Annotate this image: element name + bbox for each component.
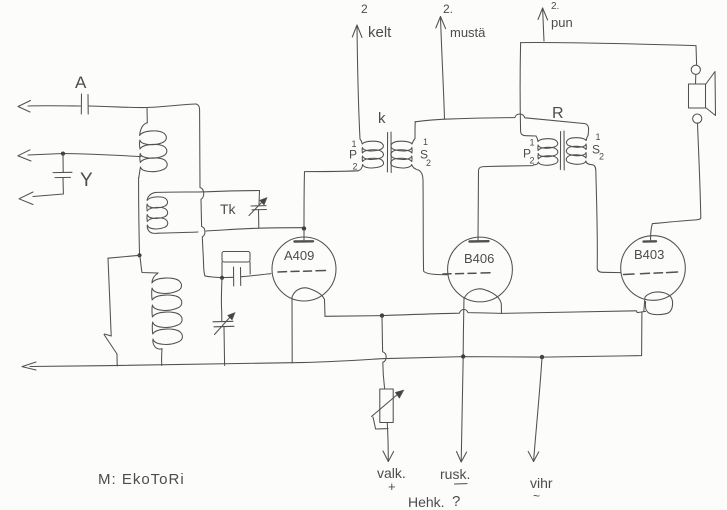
triode B403 envelope <box>621 236 686 301</box>
wire C2 bottom leg <box>258 210 260 228</box>
label valk + <box>377 465 406 494</box>
svg-text:2: 2 <box>361 2 368 16</box>
wire vihr lead down <box>534 358 542 462</box>
junction dot grid branch <box>220 276 224 280</box>
wire switch upper lead <box>108 258 111 336</box>
transformer R core <box>560 131 564 170</box>
svg-text:Hehk.: Hehk. <box>408 494 445 510</box>
wire C4 to bottom rail <box>223 327 226 366</box>
wire Tk bottom to C2 bottom and anode node <box>158 228 304 234</box>
anode cap bar A409 <box>295 240 314 243</box>
label pun <box>551 1 573 30</box>
wire valk lead down with hop over bottom rail <box>382 316 386 389</box>
wire corner down to C2 top plate <box>258 191 261 206</box>
rusk minus underline <box>455 483 468 485</box>
bottom rail left arrow <box>22 362 36 370</box>
antenna input arrow 1 <box>18 101 31 113</box>
wire antenna2 to junction and coil tap <box>28 154 141 157</box>
bottom rail from left antenna arrow to B403 filament <box>30 313 642 367</box>
svg-text:1: 1 <box>596 132 601 142</box>
grid resistor R1 right leg <box>249 262 251 274</box>
svg-text:pun: pun <box>551 15 573 30</box>
svg-text:2.: 2. <box>551 1 559 12</box>
svg-text:M: EkoToRi: M: EkoToRi <box>98 471 185 488</box>
top rail pun to speaker <box>521 42 697 64</box>
svg-text:1: 1 <box>423 137 428 147</box>
svg-text:k: k <box>378 110 386 127</box>
wire musta lead up <box>441 17 445 119</box>
grid dashed line B403 <box>624 272 678 275</box>
svg-text:2.: 2. <box>443 2 453 16</box>
capacitor A <box>75 73 88 114</box>
mid filament rail with hop over rusk wire <box>382 310 646 316</box>
junction dot A409 filament rail <box>380 313 384 317</box>
svg-text:R: R <box>552 105 564 122</box>
wire grid circuit to tube A409 grid <box>205 274 271 278</box>
reaction coil L3 <box>152 273 183 349</box>
wire coil L1 bottom down to junction <box>138 178 141 255</box>
switch blade <box>104 334 117 354</box>
wire k S1 node to musta and transformer R (hops over pun wire) <box>415 114 589 135</box>
grid resistor R1 loop left leg <box>221 262 223 278</box>
speaker bottom terminal <box>693 114 702 123</box>
svg-text:2: 2 <box>353 162 358 172</box>
wire kelt lead up <box>357 26 360 139</box>
triode B406 envelope <box>448 237 513 302</box>
output transformer R secondary winding <box>566 135 591 165</box>
wire k primary bottom to anode node A409 <box>304 171 358 227</box>
variable capacitor C2 plates <box>251 206 267 210</box>
svg-text:B406: B406 <box>464 251 494 266</box>
capacitor Y <box>53 170 93 191</box>
svg-text:~: ~ <box>533 489 540 503</box>
wire speaker to B403 anode <box>651 123 701 241</box>
rheostat foot <box>373 417 388 429</box>
label Hehk ? <box>408 493 460 510</box>
variable capacitor C4 plates <box>213 321 234 327</box>
triode A409 envelope <box>272 237 336 301</box>
wire junction to switch <box>108 255 140 258</box>
wire pun arrow up <box>543 8 544 41</box>
wire reaction coil to rail <box>161 349 163 366</box>
variable capacitor C4 arrow <box>215 313 236 335</box>
tickler coil Tk winding <box>147 192 168 233</box>
filament left leg B406 down through rail to rusk <box>461 298 464 462</box>
junction dot left coil node <box>137 253 141 257</box>
label vihr <box>530 475 553 503</box>
variable capacitor C2 arrow <box>249 198 267 216</box>
svg-text:kelt: kelt <box>368 24 392 41</box>
svg-text:A: A <box>75 73 87 92</box>
filament left leg A409 to rail <box>291 297 293 363</box>
wire pun vertical down to R primary <box>520 43 536 136</box>
wire capacitor Y to antenna3 <box>33 178 63 197</box>
filament loop B406 <box>464 289 502 314</box>
speaker box <box>689 84 706 108</box>
antenna coil L1 stem <box>146 108 148 123</box>
wire k S1 up to node <box>414 122 416 139</box>
antenna input arrow 2 <box>18 150 31 161</box>
capacitor Y stem <box>62 154 64 172</box>
anode lead B406 up and to transformer R primary <box>478 166 533 241</box>
label rusk - <box>440 466 470 482</box>
filament loop A409 <box>292 288 325 316</box>
grid dashed line A409 <box>278 271 326 273</box>
wire corner down long vertical to grid circuit (hops over Tk wires) <box>196 104 205 276</box>
arrowhead kelt <box>352 25 362 38</box>
grid resistor R1 <box>222 252 250 263</box>
wire Tk top to variable capacitor C2 <box>155 191 260 193</box>
antenna coil L1 <box>139 123 167 178</box>
wire antenna1 to capacitor A <box>28 105 81 107</box>
transformer k core <box>387 132 391 173</box>
wire filament A409 to mid rail junction <box>325 315 382 318</box>
junction dot rusk on bottom rail <box>461 354 465 358</box>
transformer k secondary winding <box>391 139 419 171</box>
svg-text:Y: Y <box>80 170 93 191</box>
wire k secondary bottom down to B406 grid <box>419 170 447 274</box>
grid capacitor C3 plates <box>234 267 241 286</box>
wire grid branch down to variable capacitor C4 <box>220 278 223 321</box>
pin labels R primary <box>523 138 535 166</box>
pin labels R secondary <box>592 132 604 162</box>
rheostat arrow <box>372 390 404 417</box>
pin labels k primary <box>349 139 358 172</box>
svg-text:?: ? <box>452 493 460 510</box>
antenna input arrow 3 <box>19 192 33 205</box>
arrowhead valk <box>383 451 394 462</box>
speaker terminal link <box>695 75 697 85</box>
label musta <box>443 2 486 40</box>
wire switch lower lead to rail <box>116 354 118 366</box>
arrowhead vihr <box>528 452 539 462</box>
anode cap bar B406 <box>470 240 489 243</box>
speaker cone <box>706 72 716 116</box>
svg-text:B403: B403 <box>634 247 664 262</box>
audio transformer k primary winding <box>358 139 384 171</box>
arrowhead rusk <box>457 452 467 463</box>
svg-text:2: 2 <box>426 158 431 168</box>
svg-text:2: 2 <box>530 156 535 166</box>
svg-text:mustä: mustä <box>450 25 486 40</box>
anode lead A409 <box>303 229 305 240</box>
svg-text:A409: A409 <box>284 248 314 263</box>
arrowhead musta <box>436 17 446 29</box>
svg-text:+: + <box>388 479 396 494</box>
output transformer R primary winding <box>534 136 558 165</box>
arrowhead pun <box>538 8 548 20</box>
anode cap bar B403 <box>644 240 657 243</box>
filament loop B403 <box>645 292 672 315</box>
filament leg B403 to rail <box>644 297 645 311</box>
rheostat body <box>380 389 393 423</box>
pin labels k secondary <box>420 137 431 168</box>
junction dot vihr on bottom rail <box>540 355 544 359</box>
wire capacitor A to top corner <box>89 104 197 108</box>
label kelt <box>361 2 392 41</box>
node junction dot antenna2 <box>61 152 65 156</box>
speaker top terminal <box>691 65 700 74</box>
svg-text:2: 2 <box>599 152 604 162</box>
wire rheostat to valk arrow <box>387 423 388 461</box>
svg-text:Tk: Tk <box>220 201 237 217</box>
wire R secondary bottom to B403 grid <box>592 165 621 273</box>
wire junction down to reaction coil <box>140 257 158 273</box>
grid dashed line B406 <box>443 273 490 274</box>
svg-text:rusk.: rusk. <box>440 466 470 482</box>
anode junction dot A409 <box>302 226 306 230</box>
svg-text:P: P <box>349 148 357 162</box>
